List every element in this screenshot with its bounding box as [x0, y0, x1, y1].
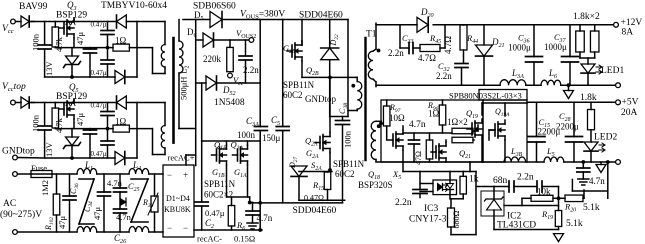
svg-text:100n: 100n [237, 130, 256, 140]
capacitor 0.47u bottom [101, 129, 114, 158]
node S2A [299, 168, 332, 172]
wire rail B right [561, 83, 616, 87]
svg-text:1N5408: 1N5408 [214, 98, 245, 108]
svg-text:SPB11N: SPB11N [333, 159, 365, 169]
label C3B [338, 102, 349, 114]
label L4 [132, 160, 141, 172]
wire right vertical [136, 22, 138, 78]
svg-text:1000μ: 1000μ [544, 42, 567, 52]
arrow chassis mid [121, 198, 126, 206]
svg-text:1Ω: 1Ω [115, 117, 127, 127]
label 220k [203, 54, 222, 64]
resistor 47ohm [426, 133, 433, 162]
terminal Vcc input [11, 100, 16, 105]
label bridge minus bot2 [183, 223, 188, 233]
diode D6 [196, 33, 249, 47]
svg-text:+12V: +12V [621, 18, 643, 28]
diode D22 [321, 20, 348, 117]
svg-text:LED2: LED2 [594, 133, 617, 143]
ground chassis mid [247, 223, 258, 229]
resistor R97 10 [383, 100, 390, 131]
diode BAV99 input [15, 16, 34, 27]
label G2A [306, 148, 319, 160]
label 47u input [57, 216, 67, 230]
label TMBYV10-60x4 [101, 1, 167, 11]
wire source join [227, 197, 252, 204]
label 8A [622, 28, 634, 38]
svg-text:D1~D4: D1~D4 [166, 194, 190, 203]
label R44 [466, 33, 478, 45]
label 13V top [44, 61, 54, 77]
label 100n bot [31, 114, 41, 132]
resistor gate a [452, 128, 473, 134]
label D52 [222, 85, 236, 97]
label 68n [493, 176, 508, 186]
capacitor C26 Y-pair [114, 174, 127, 232]
svg-text:4.7n: 4.7n [409, 120, 426, 130]
wire rail A [376, 24, 616, 26]
svg-text:(90~275)V: (90~275)V [0, 209, 42, 220]
label C33 [402, 33, 414, 45]
svg-text:AC: AC [3, 199, 16, 209]
choke L4 bottom [129, 227, 163, 233]
diode D5 [210, 12, 348, 28]
wire AC bottom [17, 231, 77, 233]
label BSP129 top [56, 11, 87, 21]
svg-text:Fuse: Fuse [31, 163, 47, 173]
terminal Vcc input [11, 19, 16, 24]
diode D21 [476, 25, 493, 85]
label +5V [622, 98, 639, 108]
wire Q1 drain rail [202, 83, 261, 141]
label IC3 [424, 204, 439, 214]
svg-text:4.7n: 4.7n [589, 176, 605, 186]
label 150u [262, 133, 281, 143]
terminal AC neutral [13, 230, 18, 235]
label Vcctop [2, 82, 26, 93]
svg-text:100n: 100n [31, 33, 41, 51]
fuse Fuse [17, 171, 77, 178]
label 47u C34 [92, 207, 102, 221]
label C2 [205, 218, 214, 230]
label SDD04E60 bottom [293, 206, 337, 216]
svg-text:+5V: +5V [622, 98, 639, 108]
svg-text:2.2n: 2.2n [243, 65, 259, 75]
svg-text:+: + [183, 170, 188, 180]
label Q2B [306, 65, 319, 77]
svg-text:T1: T1 [366, 30, 377, 40]
label R15 [312, 180, 324, 192]
label 2.2n C32 [436, 71, 452, 81]
winding T1 sec bottom [371, 121, 381, 161]
resistor 680ohm [448, 199, 477, 235]
label AC range [0, 209, 42, 220]
label 20A [621, 108, 638, 118]
label C3A [246, 116, 259, 128]
capacitor C3B 100n [336, 20, 350, 203]
label L3A [511, 68, 524, 80]
wire y202 rail [250, 201, 343, 232]
capacitor 100n [38, 22, 51, 78]
diode D20 [417, 17, 428, 32]
svg-text:0.47μ: 0.47μ [205, 208, 225, 218]
label X5 [392, 169, 401, 181]
transistor Q2A SPB11N [315, 76, 332, 171]
capacitor 100n [38, 103, 51, 159]
resistor 10k [522, 195, 560, 205]
label G1B [212, 167, 225, 179]
label SPB80N03S2L-03x3 [449, 91, 522, 101]
svg-text:Vcc​top: Vcc​top [2, 82, 26, 93]
label bridge minus bot1 [167, 223, 172, 233]
label 0.47u C2 [205, 208, 225, 218]
label D22 [329, 34, 340, 46]
capacitor C3A 100n [254, 127, 267, 203]
winding T1 primary [348, 77, 362, 110]
svg-text:1Ω: 1Ω [428, 109, 440, 119]
capacitor 0.47u bottom [101, 48, 114, 77]
inductor L6 [541, 80, 561, 85]
svg-text:−: − [167, 170, 172, 180]
wire box divider [482, 100, 484, 162]
label 2.2n sec [388, 48, 404, 58]
wire led1 join [580, 58, 595, 64]
label 1ohm bot [115, 117, 127, 127]
label 0.47ohm [304, 194, 324, 203]
capacitor 4.7n box [409, 133, 420, 162]
label SPB11N mid [204, 179, 236, 189]
transistor Q19 [467, 103, 527, 162]
label C36 out [518, 33, 530, 45]
label D20 [420, 7, 434, 19]
label KBU8K [164, 205, 191, 214]
label recAC- [197, 234, 222, 244]
svg-text:68n: 68n [493, 176, 508, 186]
label 0.47u bot1 [91, 102, 107, 110]
terminal AC line [13, 172, 18, 177]
inductor L5 [544, 157, 564, 162]
label 100n C3A [237, 130, 256, 140]
svg-text:1.8k: 1.8k [580, 93, 597, 103]
capacitor 47u [84, 48, 97, 77]
gnd arrow railD [596, 162, 606, 173]
label C15 [539, 117, 551, 129]
label 680ohm [452, 211, 461, 229]
label AC [3, 199, 16, 209]
label G1A [234, 167, 247, 179]
TL431 IC2 [481, 187, 504, 230]
terminal +5V [616, 100, 621, 105]
capacitor 2.2n fb [413, 172, 427, 198]
svg-text:SPB80N03S2L-03×3: SPB80N03S2L-03×3 [449, 91, 522, 101]
svg-text:BSP320S: BSP320S [358, 180, 393, 190]
resistor 1 ohm [113, 44, 153, 51]
wire opto bottom node [450, 195, 463, 199]
capacitor C36 1000u [526, 25, 543, 85]
label L1 [84, 160, 93, 172]
label D21 [491, 37, 505, 49]
wire X5 [403, 162, 476, 172]
label 47ohm [414, 151, 423, 165]
capacitor 4.7n mid [246, 203, 259, 224]
label R30 [142, 198, 154, 209]
label 1ohm R96 [428, 109, 440, 119]
varistor R30 [148, 174, 158, 232]
capacitor 47u input [63, 174, 76, 232]
label 47u top [75, 32, 85, 46]
wire bottom rail [45, 76, 115, 78]
transistor Q2B SPB11N [287, 41, 302, 77]
label 4.7ohm R45 [418, 53, 436, 63]
label 4.7k bot [54, 117, 64, 133]
label CNY17-3 [409, 215, 447, 225]
svg-text:4.7Ω: 4.7Ω [418, 53, 436, 63]
cap C34 Z symbol [79, 179, 94, 224]
label 10ohm [389, 113, 405, 123]
terminal GNDtop [13, 155, 45, 160]
capacitor 68n [494, 181, 537, 192]
label R102 [44, 217, 55, 231]
wire rail D right [564, 160, 616, 164]
label C26 [114, 233, 127, 244]
label Vcc mid [233, 75, 244, 87]
svg-text:GNDtop: GNDtop [305, 94, 336, 104]
svg-text:4.7n: 4.7n [257, 213, 273, 223]
label 5.1k R19 [566, 219, 583, 229]
label C37 out [554, 32, 567, 44]
resistor 1.8k a [576, 25, 585, 58]
capacitor C24 mid [98, 174, 111, 232]
label R6 [236, 220, 245, 232]
label D27 [288, 157, 299, 169]
capacitor C37 1000u [562, 25, 579, 85]
svg-text:47Ω: 47Ω [414, 151, 423, 165]
winding drive bottom [161, 103, 165, 155]
transistor Q1B SPB11N [212, 141, 227, 197]
label 60C2 Q2A [335, 169, 355, 179]
label 2200u C28 [556, 122, 579, 132]
wire bridge plus up [186, 155, 196, 165]
capacitor 2.2n fb2 [537, 181, 559, 211]
wire rail C [527, 101, 616, 103]
inductor L3B [504, 157, 526, 162]
svg-text:0.47μ: 0.47μ [91, 21, 107, 29]
svg-text:1k: 1k [469, 175, 479, 185]
wire cathode net [476, 172, 494, 235]
box SPB80N03S2L [381, 100, 527, 162]
svg-text:2200μ: 2200μ [556, 122, 579, 132]
zener diode 13V [64, 129, 81, 160]
label R20 [564, 202, 576, 214]
svg-text:2.2n: 2.2n [388, 48, 404, 58]
label 5.1k R20 [583, 203, 600, 213]
wire ref [504, 205, 559, 207]
wire x260 vertical [259, 20, 261, 127]
svg-text:4.7k: 4.7k [54, 117, 64, 133]
svg-text:100n: 100n [31, 114, 41, 132]
resistor R96 1ohm [439, 100, 446, 133]
label Vous=380V [240, 10, 285, 21]
capacitor 0.47u top [101, 103, 114, 131]
label LED1 [601, 66, 624, 76]
label 4.7n lower [116, 212, 132, 222]
label 0.47u bot2 [91, 150, 107, 158]
label C34 [83, 201, 94, 212]
svg-text:CNY17-3: CNY17-3 [409, 215, 447, 225]
label IC2 [507, 212, 522, 222]
svg-text:IC3: IC3 [424, 204, 439, 214]
wire R20 to railD [572, 162, 607, 198]
inductor L3A [500, 80, 526, 86]
label L6 [548, 68, 558, 80]
diode TMBYV bottom [115, 152, 137, 165]
label Q21 [459, 148, 471, 160]
winding drive top [161, 22, 165, 74]
wire gate node [55, 128, 113, 130]
resistor 220k [227, 40, 234, 78]
label 4.7ohm R44 [443, 36, 453, 54]
terminal Vous2 [249, 38, 254, 43]
winding L2 500uH [179, 20, 196, 129]
resistor 4.7k [52, 103, 59, 129]
transformer core gate-drive [172, 38, 175, 143]
svg-text:4.7n: 4.7n [107, 178, 123, 188]
label 2200u C15 [538, 127, 561, 137]
svg-text:0.47Ω: 0.47Ω [304, 194, 324, 203]
label GNDtop mid [305, 94, 336, 104]
svg-text:GNDtop: GNDtop [2, 147, 35, 157]
svg-text:1Ω: 1Ω [115, 36, 127, 46]
label Q19 [466, 108, 478, 120]
label Q1B [214, 140, 227, 152]
resistor R19 5.1k [555, 211, 561, 230]
svg-text:1Ω×2: 1Ω×2 [447, 117, 468, 127]
label 13V bot [44, 142, 54, 158]
label Q2A [305, 136, 318, 148]
svg-text:100n: 100n [343, 130, 353, 148]
svg-text:10k: 10k [537, 187, 551, 197]
label BAV99 [19, 2, 48, 12]
capacitor C15 2200u [528, 102, 545, 162]
wire recAC- rail [194, 229, 262, 231]
resistor R15 [324, 172, 331, 201]
label Q5 [69, 82, 79, 94]
label D5 [194, 10, 204, 22]
svg-text:47μ: 47μ [75, 32, 85, 46]
svg-text:13V: 13V [44, 61, 54, 77]
diode TMBYV top [117, 15, 166, 28]
svg-text:−: − [167, 223, 172, 233]
svg-text:0.15Ω: 0.15Ω [234, 234, 255, 244]
wire halfbridge mid [302, 76, 357, 78]
label 1N5408 [214, 98, 245, 108]
transistor Q3 BSP129 [59, 18, 75, 48]
label +12V [621, 18, 643, 28]
svg-text:0.47μ: 0.47μ [91, 102, 107, 110]
svg-text:recAC-: recAC- [197, 234, 222, 244]
svg-text:13V: 13V [44, 142, 54, 158]
resistor R20 5.1k [559, 190, 585, 202]
capacitor C28 2200u [566, 102, 583, 162]
terminal common 12V [616, 83, 621, 88]
wire top rail [29, 21, 115, 23]
capacitor 2.2n vous2 [239, 40, 252, 83]
svg-text:5.1k: 5.1k [583, 203, 600, 213]
label Q3 [67, 0, 77, 12]
svg-text:5.1k: 5.1k [566, 219, 583, 229]
label SPB11N Q2A [333, 159, 365, 169]
resistor 1 ohm [113, 125, 153, 132]
resistor 4.7k [52, 22, 59, 48]
label 60C2x2 [204, 190, 233, 200]
svg-text:47μ: 47μ [75, 113, 85, 127]
label SDD04E60 top [299, 11, 343, 21]
diode TMBYV bottom [115, 71, 137, 84]
svg-text:47μ: 47μ [57, 216, 67, 230]
label 4.7k top [54, 36, 64, 52]
snubber C33 R45 wire [400, 25, 445, 54]
svg-text:220k: 220k [203, 54, 222, 64]
svg-text:SDD04E60: SDD04E60 [293, 206, 337, 216]
choke L1 top [77, 169, 129, 175]
transistor Q19A [489, 103, 505, 162]
svg-text:0.47μ: 0.47μ [91, 150, 107, 158]
svg-text:10Ω: 10Ω [389, 113, 405, 123]
box label rect [479, 90, 527, 101]
resistor R102 1M2 [53, 174, 60, 232]
label 2.2n vous2 [243, 65, 259, 75]
capacitor C5 150u [276, 20, 289, 203]
label Fuse [31, 163, 47, 173]
label R19 [541, 209, 553, 221]
label C32 [438, 61, 450, 73]
label BSP129 bottom [56, 92, 87, 102]
label 60C2 Q2B [283, 90, 303, 100]
label 2.2n fb2 [517, 173, 534, 183]
label 0.47u top1 [91, 21, 107, 29]
label C5 [271, 115, 280, 127]
label R97 [389, 103, 401, 114]
bridge rectifier D1-D4 KBU8K box [163, 165, 194, 237]
diode D52 1N5408 [196, 76, 261, 90]
diode BAV99 input [15, 97, 34, 108]
wire box mid [403, 132, 452, 134]
wire rail B left [376, 84, 500, 86]
label 10k [537, 187, 551, 197]
svg-text:60C2×2: 60C2×2 [204, 190, 233, 200]
optocoupler IC3 CNY17-3 [420, 172, 457, 195]
label SPB11N Q2B [283, 80, 315, 90]
LED LED2 [584, 142, 605, 162]
label C28 [559, 111, 571, 123]
label 0.47u top2 [91, 69, 107, 77]
label 4.7n mid [257, 213, 273, 223]
wire bottom rail [45, 157, 115, 159]
label LED2 [594, 133, 617, 143]
cap C25 Z symbol [131, 179, 148, 222]
label S2A [311, 160, 322, 172]
terminal +12V [614, 22, 619, 27]
label 1M2 [40, 180, 50, 196]
choke L4 top [129, 169, 163, 175]
resistor gate b [452, 125, 478, 143]
label L5 [546, 146, 555, 158]
label 4.7n upper [107, 178, 123, 188]
wire right vertical [136, 103, 138, 159]
label C36 input [69, 183, 80, 194]
wire gate node [55, 47, 113, 49]
label 0.15ohm [234, 234, 255, 244]
